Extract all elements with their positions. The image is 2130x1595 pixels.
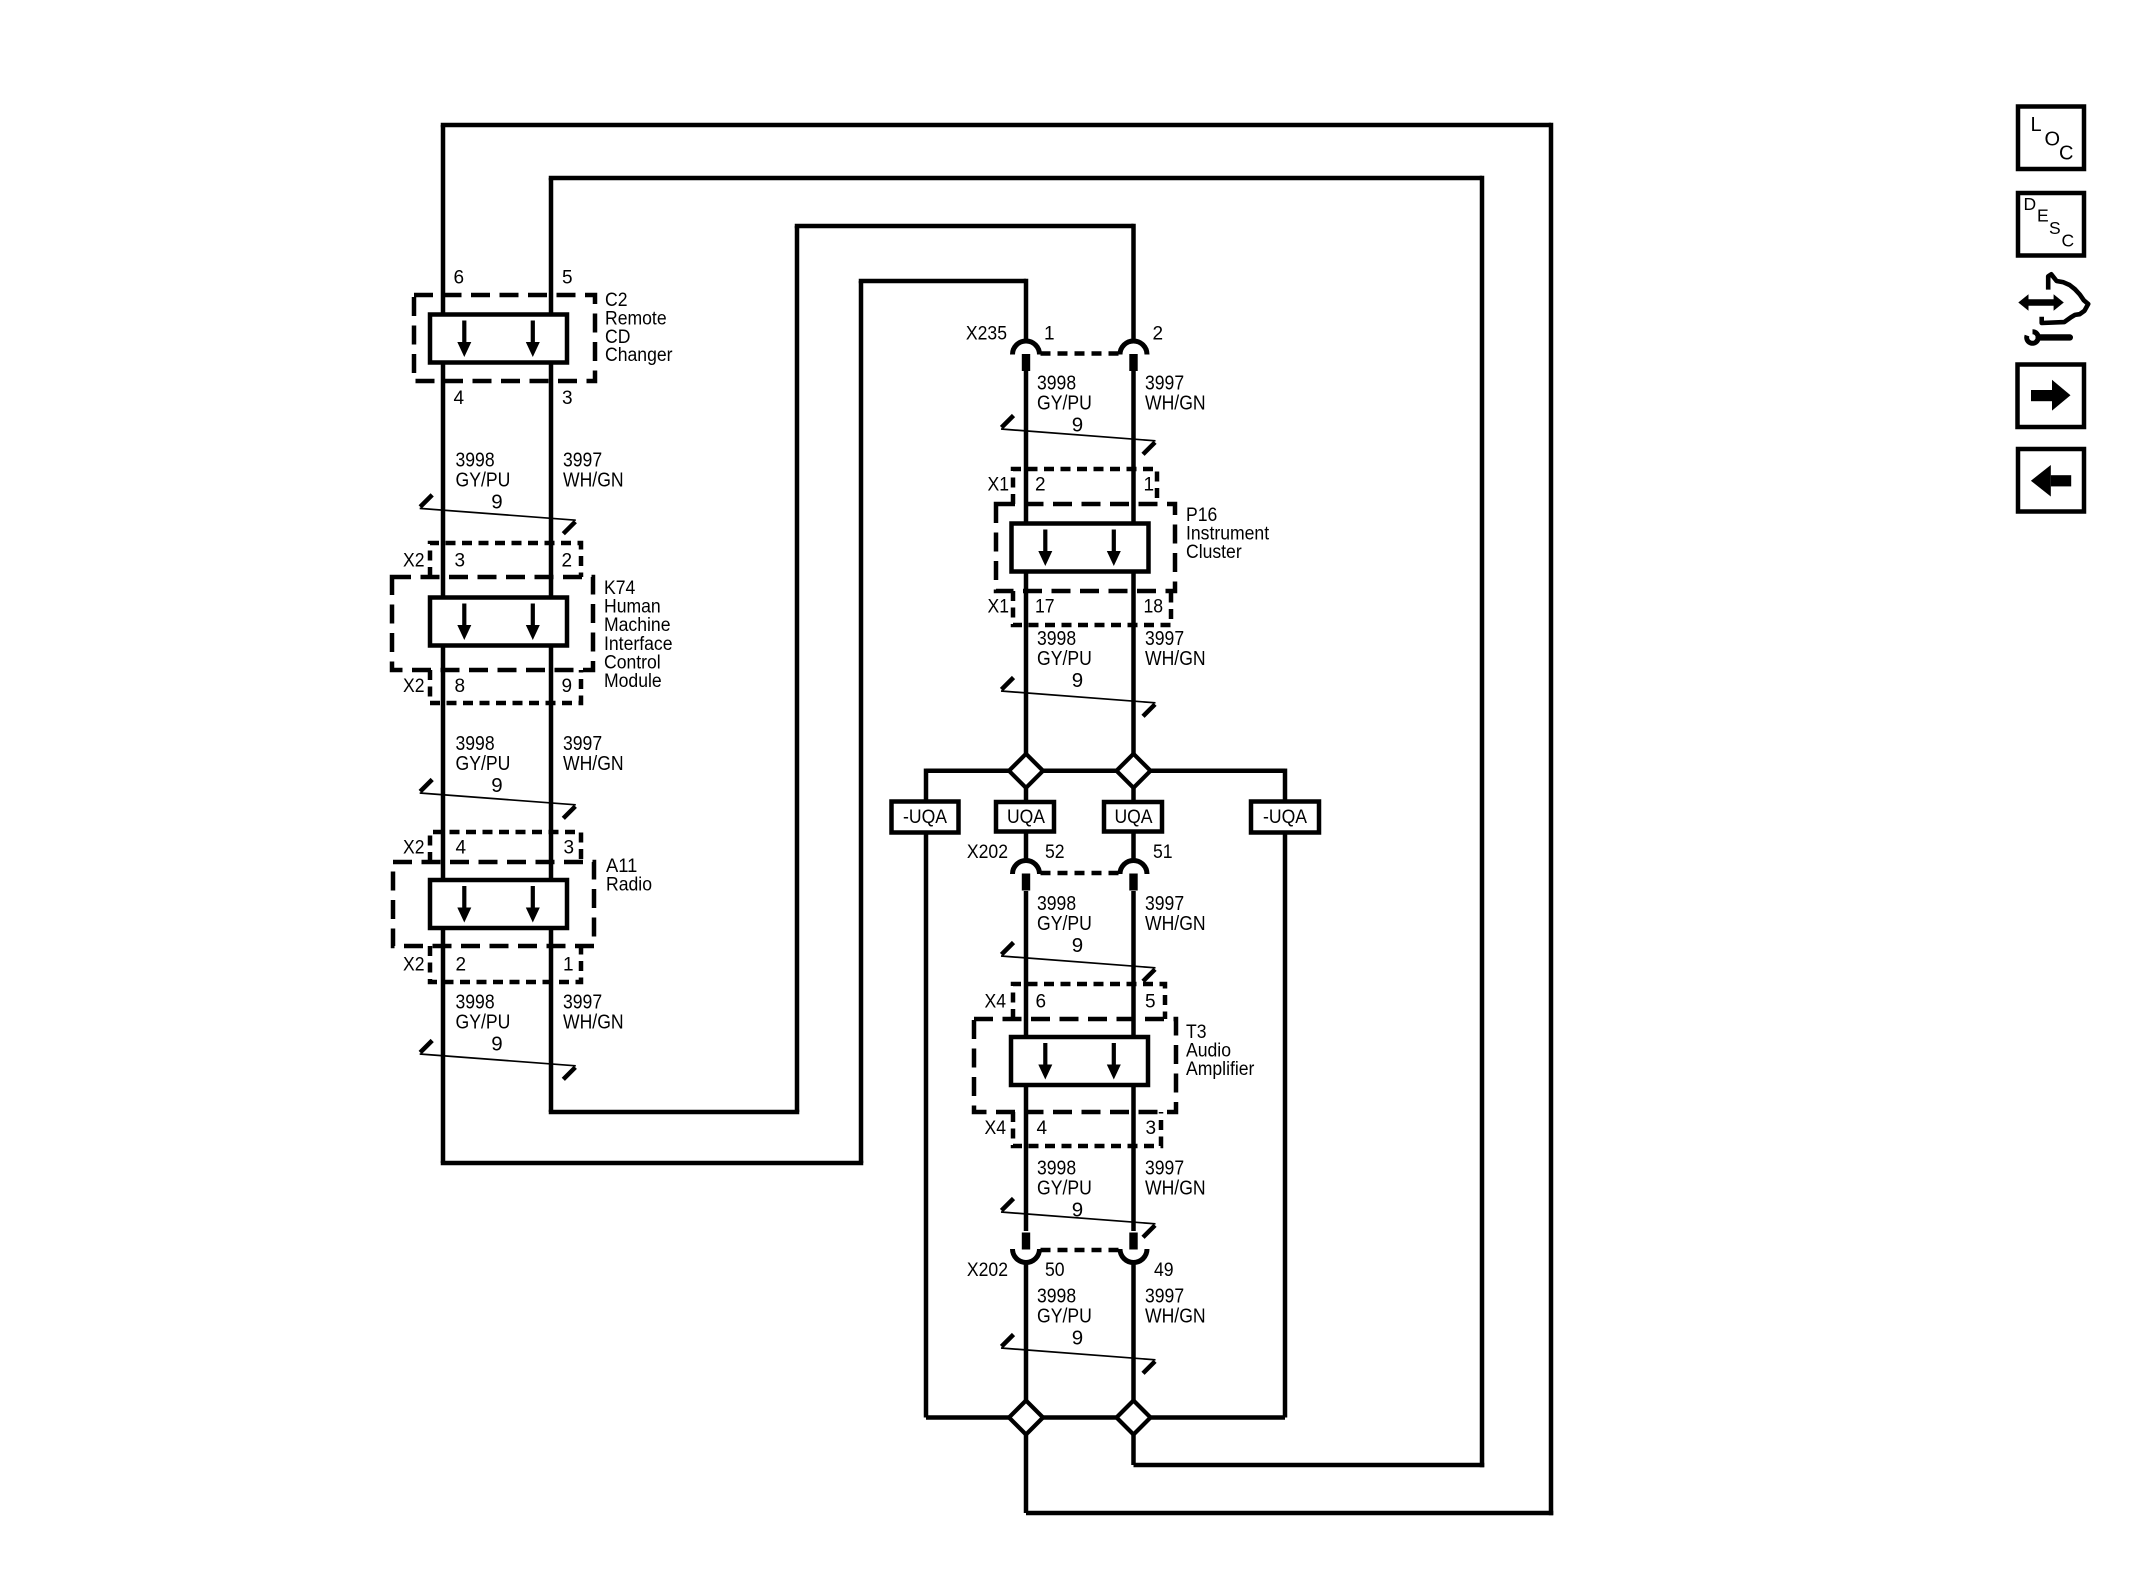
svg-text:2: 2 <box>456 955 467 976</box>
connector X2 bottom dotted box (A11) <box>430 946 581 982</box>
wire -UQA left drop lower <box>924 829 929 1418</box>
svg-text:52: 52 <box>1045 842 1065 863</box>
svg-text:WH/GN: WH/GN <box>1145 1176 1206 1199</box>
wire 3997 UQA-X202 vertical <box>1131 829 1136 861</box>
svg-text:WH/GN: WH/GN <box>1145 1304 1206 1327</box>
K74 arrow left <box>462 604 466 627</box>
connector X202 dotted link upper <box>1041 871 1120 876</box>
connector X4 top dotted box (T3) <box>1013 984 1165 1019</box>
wire 3997 X235 pin2 drop <box>1131 224 1136 342</box>
svg-text:3: 3 <box>455 551 466 572</box>
svg-text:9: 9 <box>1072 414 1083 437</box>
connector X2 top dotted box (A11) <box>430 832 581 862</box>
svg-text:5: 5 <box>1145 992 1156 1013</box>
component A11 connector body <box>430 880 567 928</box>
icon wrench <box>2024 329 2073 346</box>
twisted pair symbol (X235-P16) <box>1001 416 1156 455</box>
connector X202 arc pin 51 <box>1120 860 1147 890</box>
svg-text:X4: X4 <box>985 992 1007 1013</box>
svg-text:3: 3 <box>1146 1118 1157 1139</box>
svg-text:GY/PU: GY/PU <box>456 469 511 492</box>
svg-text:WH/GN: WH/GN <box>1145 392 1206 415</box>
K74 arrow right <box>531 604 535 627</box>
icon vehicle double arrow <box>2018 294 2064 310</box>
wire 3998 top horizontal <box>441 123 1551 128</box>
wire 3998 C2-K74 vertical <box>441 360 446 600</box>
svg-text:X202: X202 <box>967 1260 1008 1281</box>
wire 3997 right return vertical <box>1480 176 1485 1468</box>
twisted pair symbol (P16-splice) <box>1001 678 1156 717</box>
wire 3997 inner top horizontal <box>795 224 1134 229</box>
svg-text:9: 9 <box>491 774 502 797</box>
svg-text:X2: X2 <box>403 676 425 697</box>
svg-text:WH/GN: WH/GN <box>563 469 624 492</box>
svg-text:3: 3 <box>562 388 573 409</box>
svg-text:WH/GN: WH/GN <box>1145 912 1206 935</box>
connector X2 bottom dotted box (K74) <box>430 670 581 703</box>
P16 arrow left <box>1043 530 1047 553</box>
A11 arrow right <box>531 886 535 909</box>
wire 3997 inner return vertical <box>795 226 800 1112</box>
T3 arrow right <box>1112 1043 1116 1066</box>
svg-text:6: 6 <box>1036 992 1047 1013</box>
connector X235 arc pin 1 <box>1013 341 1040 371</box>
connector X235 arc pin 2 <box>1120 341 1147 371</box>
component P16 dashed outline <box>996 504 1175 591</box>
svg-text:49: 49 <box>1154 1260 1174 1281</box>
wire 3998 X235-P16 vertical <box>1024 371 1029 526</box>
icon forward box <box>2018 365 2085 428</box>
wire 3997 A11 lower horizontal <box>549 1110 800 1115</box>
svg-text:GY/PU: GY/PU <box>456 1011 511 1034</box>
svg-text:UQA: UQA <box>1007 807 1045 828</box>
svg-text:9: 9 <box>1072 934 1083 957</box>
svg-text:4: 4 <box>1037 1118 1048 1139</box>
icon forward arrow <box>2031 380 2071 411</box>
wire 3998 UQA-X202 vertical <box>1024 829 1029 861</box>
wire 3998 splice-UQA vertical <box>1024 770 1029 804</box>
wire 3997 K74-A11 vertical <box>549 643 554 882</box>
svg-text:WH/GN: WH/GN <box>1145 647 1206 670</box>
svg-text:3: 3 <box>564 838 575 859</box>
connector X235 dotted link <box>1041 351 1120 356</box>
wire 3997 X235-P16 vertical <box>1131 371 1136 526</box>
twisted pair symbol (C2-K74) <box>420 495 576 534</box>
wire 3998 X202-T3 vertical <box>1024 891 1029 1038</box>
component P16 connector body <box>1012 524 1149 572</box>
C2 arrow right <box>531 321 535 344</box>
wire 3997 top horizontal <box>549 176 1482 181</box>
T3 arrow left <box>1043 1043 1047 1066</box>
connector X202 arc pin 49 <box>1120 1233 1147 1263</box>
wire 3998 splice to bottom loop <box>1024 1417 1029 1513</box>
wire splice bus upper horizontal <box>926 769 1285 774</box>
icon DESC box <box>2018 193 2084 256</box>
svg-text:X2: X2 <box>403 838 425 859</box>
svg-text:L: L <box>2031 114 2042 136</box>
connector X1 top dotted box (P16) <box>1013 469 1157 504</box>
wire 3998 inner return vertical <box>859 281 864 1163</box>
wire 3997 X202-T3 vertical <box>1131 891 1136 1038</box>
svg-text:1: 1 <box>1044 324 1055 345</box>
svg-text:1: 1 <box>563 955 574 976</box>
svg-text:9: 9 <box>562 676 573 697</box>
svg-text:X2: X2 <box>403 955 425 976</box>
svg-text:-UQA: -UQA <box>903 807 947 828</box>
component C2 dashed outline <box>414 295 595 381</box>
option box UQA right <box>1104 802 1162 832</box>
twisted pair symbol (A11-loop) <box>420 1041 576 1080</box>
wire -UQA left drop upper <box>924 769 929 804</box>
option box -UQA left <box>892 802 959 833</box>
twisted pair symbol (X202-splice) <box>1001 1335 1156 1374</box>
svg-text:WH/GN: WH/GN <box>563 752 624 775</box>
wire 3998 K74-A11 vertical <box>441 643 446 882</box>
wire -UQA right drop lower <box>1283 829 1288 1418</box>
wire 3997 P16-splice vertical <box>1131 569 1136 770</box>
svg-text:-UQA: -UQA <box>1263 807 1307 828</box>
svg-text:9: 9 <box>1072 669 1083 692</box>
component T3 connector body <box>1011 1037 1148 1085</box>
connector X1 bottom dotted box (P16) <box>1013 591 1171 625</box>
svg-text:GY/PU: GY/PU <box>456 752 511 775</box>
svg-text:2: 2 <box>1035 475 1046 496</box>
wire 3998 X235 pin1 drop <box>1024 279 1029 342</box>
icon back box <box>2018 449 2084 512</box>
svg-text:GY/PU: GY/PU <box>1037 1176 1092 1199</box>
svg-text:Radio: Radio <box>606 875 652 896</box>
connector X202 arc pin 50 <box>1013 1233 1040 1263</box>
svg-text:X4: X4 <box>985 1118 1007 1139</box>
wire 3998 A11 pin2 to bottom <box>441 926 446 1163</box>
svg-text:X1: X1 <box>988 475 1010 496</box>
twisted pair symbol (X202-T3) <box>1001 943 1156 982</box>
component K74 dashed outline <box>392 577 593 670</box>
option box -UQA right <box>1251 802 1319 833</box>
svg-text:4: 4 <box>454 388 465 409</box>
svg-text:E: E <box>2037 206 2049 226</box>
svg-text:50: 50 <box>1045 1260 1065 1281</box>
svg-text:O: O <box>2045 129 2061 151</box>
wire -UQA right drop upper <box>1283 769 1288 804</box>
connector X4 bottom dotted box (T3) <box>1013 1112 1161 1146</box>
wire 3997 T3-X202 vertical <box>1131 1084 1136 1231</box>
connector X202 arc pin 52 <box>1013 860 1040 890</box>
svg-text:S: S <box>2049 218 2061 238</box>
svg-text:Amplifier: Amplifier <box>1186 1059 1255 1080</box>
P16 arrow right <box>1112 530 1116 553</box>
icon LOC box <box>2018 107 2084 170</box>
wire 3997 splice-UQA vertical <box>1131 770 1136 804</box>
splice diamond lower left <box>1009 1401 1043 1435</box>
connector X202 dotted link lower <box>1041 1248 1120 1253</box>
wire splice bus lower horizontal <box>926 1415 1285 1420</box>
wire 3997 C2 pin5 vertical <box>549 178 554 317</box>
svg-text:Cluster: Cluster <box>1186 542 1242 563</box>
svg-text:X2: X2 <box>403 551 425 572</box>
component T3 dashed outline <box>974 1019 1176 1112</box>
wire 3998 right return vertical <box>1549 123 1554 1516</box>
wire 3997 splice to bottom loop <box>1131 1417 1136 1465</box>
wire 3998 X202-splice vertical <box>1024 1262 1029 1417</box>
svg-text:1: 1 <box>1144 475 1155 496</box>
wire 3998 C2 pin6 vertical <box>441 125 446 317</box>
svg-text:WH/GN: WH/GN <box>563 1011 624 1034</box>
svg-text:GY/PU: GY/PU <box>1037 1304 1092 1327</box>
component A11 dashed outline <box>393 862 594 946</box>
svg-text:UQA: UQA <box>1114 807 1152 828</box>
svg-text:5: 5 <box>562 268 573 289</box>
component C2 connector body <box>430 315 567 363</box>
svg-text:Changer: Changer <box>605 345 673 366</box>
svg-text:8: 8 <box>455 676 466 697</box>
wire 3997 C2-K74 vertical <box>549 360 554 600</box>
svg-text:51: 51 <box>1153 842 1173 863</box>
svg-text:GY/PU: GY/PU <box>1037 392 1092 415</box>
wire 3997 bottom horizontal <box>1134 1463 1485 1468</box>
svg-text:4: 4 <box>456 838 467 859</box>
svg-text:17: 17 <box>1035 597 1055 618</box>
svg-text:9: 9 <box>1072 1326 1083 1349</box>
svg-text:X1: X1 <box>988 597 1010 618</box>
svg-text:C: C <box>2059 143 2073 165</box>
wire 3998 A11 lower horizontal <box>441 1161 864 1166</box>
svg-text:GY/PU: GY/PU <box>1037 647 1092 670</box>
twisted pair symbol (T3-X202) <box>1001 1199 1156 1238</box>
wire 3997 X202-splice vertical <box>1131 1262 1136 1417</box>
svg-text:9: 9 <box>491 491 502 514</box>
option box UQA left <box>996 802 1054 832</box>
svg-text:X235: X235 <box>966 324 1007 345</box>
wire 3998 P16-splice vertical <box>1024 569 1029 770</box>
wire 3998 bottom horizontal <box>1026 1511 1553 1516</box>
wire 3998 inner top horizontal <box>859 279 1026 284</box>
svg-text:6: 6 <box>454 268 465 289</box>
icon vehicle outline <box>2042 274 2089 323</box>
icon back arrow <box>2031 465 2071 497</box>
A11 arrow left <box>462 886 466 909</box>
C2 arrow left <box>462 321 466 344</box>
svg-text:9: 9 <box>491 1033 502 1056</box>
svg-text:18: 18 <box>1144 597 1164 618</box>
svg-text:GY/PU: GY/PU <box>1037 912 1092 935</box>
component K74 connector body <box>430 598 567 646</box>
connector X2 top dotted box (K74) <box>430 543 581 577</box>
splice diamond upper left <box>1009 754 1043 788</box>
svg-text:2: 2 <box>1153 324 1164 345</box>
wire 3998 T3-X202 vertical <box>1024 1084 1029 1231</box>
svg-text:D: D <box>2024 194 2037 214</box>
svg-text:X202: X202 <box>967 842 1008 863</box>
svg-text:Module: Module <box>604 671 662 692</box>
wire 3997 A11 pin1 to bottom <box>549 926 554 1112</box>
svg-text:C: C <box>2062 231 2075 251</box>
splice diamond lower right <box>1117 1401 1151 1435</box>
splice diamond upper right <box>1117 754 1151 788</box>
twisted pair symbol (K74-A11) <box>420 780 576 819</box>
svg-text:2: 2 <box>562 551 573 572</box>
